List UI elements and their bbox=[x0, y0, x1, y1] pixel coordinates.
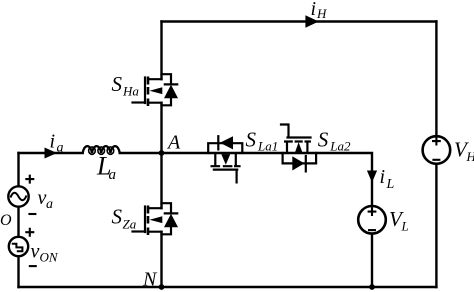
svg-text:a: a bbox=[46, 197, 53, 212]
svg-text:i: i bbox=[50, 131, 56, 153]
svg-text:i: i bbox=[311, 0, 317, 20]
svg-text:H: H bbox=[316, 6, 327, 21]
svg-text:La1: La1 bbox=[257, 139, 278, 154]
svg-text:S: S bbox=[112, 72, 123, 96]
svg-text:S: S bbox=[112, 205, 123, 229]
svg-text:ON: ON bbox=[40, 250, 59, 265]
svg-text:v: v bbox=[31, 241, 40, 263]
svg-text:L: L bbox=[401, 219, 409, 234]
svg-text:L: L bbox=[386, 177, 395, 192]
svg-text:S: S bbox=[246, 127, 257, 151]
svg-text:Za: Za bbox=[123, 217, 137, 232]
svg-text:N: N bbox=[142, 269, 158, 291]
svg-text:a: a bbox=[109, 167, 117, 183]
svg-text:O: O bbox=[0, 212, 12, 229]
svg-text:S: S bbox=[318, 127, 329, 151]
svg-text:La2: La2 bbox=[329, 139, 351, 154]
svg-text:i: i bbox=[380, 166, 386, 188]
svg-text:H: H bbox=[466, 149, 474, 164]
svg-text:a: a bbox=[57, 141, 64, 156]
svg-text:Ha: Ha bbox=[122, 84, 139, 99]
svg-text:A: A bbox=[166, 132, 181, 154]
